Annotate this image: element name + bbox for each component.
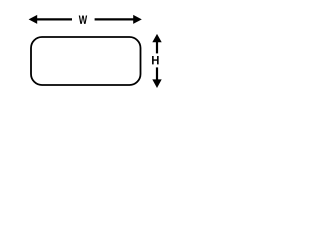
dimension H: down arrowhead	[152, 79, 161, 88]
dimension H: upper shaft	[156, 41, 158, 53]
dimension W: right arrowhead	[133, 15, 142, 24]
dimension W: right shaft	[95, 18, 134, 20]
dimension H: up arrowhead	[152, 34, 161, 42]
label W	[79, 15, 87, 23]
package body (rounded rectangle)	[31, 37, 141, 85]
dimension H: lower shaft	[156, 67, 158, 80]
label H	[152, 56, 159, 64]
dimension W: left arrowhead	[29, 15, 38, 24]
dimension W: left shaft	[37, 18, 73, 20]
